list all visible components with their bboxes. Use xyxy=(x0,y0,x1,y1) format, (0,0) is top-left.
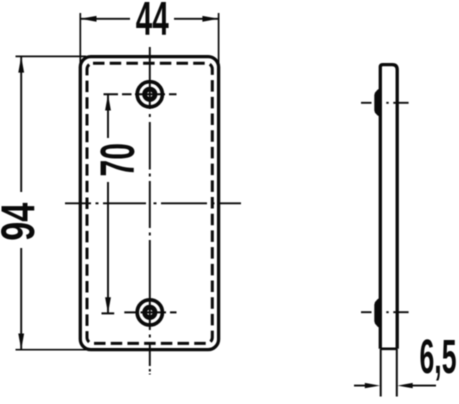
arrowhead 6,5 right xyxy=(397,383,412,388)
svg-text:6,5: 6,5 xyxy=(420,330,457,384)
side view: bottom edge xyxy=(380,347,397,350)
svg-text:44: 44 xyxy=(136,0,169,45)
dimension 70: dimension line xyxy=(107,94,109,313)
svg-text:94: 94 xyxy=(0,202,45,240)
vertical centerline xyxy=(149,47,151,375)
svg-text:70: 70 xyxy=(91,143,145,177)
side view: top mounting boss xyxy=(374,88,380,117)
side view: top boss centerline xyxy=(361,102,409,104)
side view: body outline xyxy=(380,65,397,349)
bottom hole crosshair horizontal xyxy=(102,312,177,313)
arrowhead 94 bottom xyxy=(18,334,24,350)
side view: bottom boss centerline xyxy=(361,311,409,313)
horizontal centerline xyxy=(65,202,241,204)
dimension 44: extension lines xyxy=(80,13,218,66)
dimension 94: dimension line xyxy=(20,56,22,349)
arrowhead 94 top xyxy=(18,56,24,72)
arrowhead 70 bottom xyxy=(105,297,111,313)
arrowhead 44 left xyxy=(80,16,96,22)
top hole crosshair horizontal xyxy=(104,93,177,95)
dimension 94: extension lines xyxy=(16,56,87,349)
side view: bottom mounting boss xyxy=(374,298,380,329)
bottom mounting hole xyxy=(137,300,162,325)
outer body outline (front view) xyxy=(80,57,218,350)
inner dashed outline xyxy=(87,63,212,343)
arrowhead 6,5 left xyxy=(365,383,380,388)
dimension 6,5: leader lines xyxy=(354,385,436,387)
dimension 44: dimension line xyxy=(80,18,218,20)
arrowhead 44 right xyxy=(202,16,218,22)
top mounting hole xyxy=(137,82,162,107)
side view: extension lines below xyxy=(381,349,397,397)
arrowhead 70 top xyxy=(105,94,111,110)
